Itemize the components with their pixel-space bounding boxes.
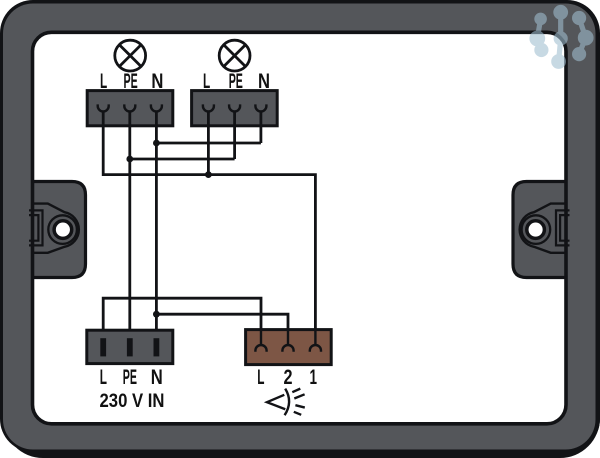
lamp connector 2 pin PE clamp <box>229 104 240 111</box>
svg-text:N: N <box>151 69 163 93</box>
svg-text:L: L <box>100 365 107 389</box>
svg-text:230 V IN: 230 V IN <box>100 390 165 412</box>
wire input L to switch L <box>103 298 261 330</box>
wire PE bus vertical <box>128 111 131 330</box>
lamp connector 1 block <box>87 91 173 126</box>
junction N-bus to switch terminal 2 <box>153 311 160 318</box>
svg-text:2: 2 <box>284 365 293 389</box>
switch lamp icon <box>267 389 305 416</box>
lamp connector 2 block <box>192 91 278 126</box>
svg-text:PE: PE <box>229 69 243 93</box>
wire lamp2 L drop <box>207 111 210 175</box>
input pin N slot <box>154 338 160 356</box>
input pin L slot <box>100 338 106 356</box>
svg-text:PE: PE <box>124 69 138 93</box>
lamp connector 1 pin L clamp <box>98 104 109 111</box>
labels lamp2 L PE N <box>203 69 270 93</box>
input terminal slots <box>100 338 159 356</box>
switch connector terminals <box>255 330 321 352</box>
junction PE-bus to lamp2 <box>126 156 133 163</box>
switch connector block (brown) <box>246 330 332 365</box>
svg-text:L: L <box>257 365 264 389</box>
wire lamp1 L to switched line to terminal 1 <box>103 111 315 330</box>
labels switch L 2 1 <box>257 365 317 389</box>
labels input L PE N <box>100 365 163 389</box>
switch connector pin L contact <box>255 330 266 352</box>
svg-text:N: N <box>151 365 163 389</box>
right screw lug <box>520 204 570 253</box>
lamp connector 1 pin PE clamp <box>124 104 135 111</box>
left mounting tab <box>31 182 86 278</box>
left screw lug <box>29 204 79 253</box>
input pin PE slot <box>127 338 133 356</box>
wire lamp2 PE branch <box>130 111 235 159</box>
wire N to switch terminal 2 <box>156 314 288 329</box>
inner white area <box>33 32 567 424</box>
svg-text:L: L <box>100 69 107 93</box>
svg-text:N: N <box>258 69 270 93</box>
junction N-bus to lamp2 <box>153 140 160 147</box>
lamp connector 1 terminals <box>98 104 162 111</box>
lamp symbol 2 <box>219 40 250 71</box>
watermark logo <box>530 5 593 68</box>
lamp connector 2 pin L clamp <box>203 104 214 111</box>
right mounting tab <box>513 182 568 278</box>
svg-text:L: L <box>203 69 210 93</box>
svg-text:PE: PE <box>123 365 137 389</box>
lamp connector 2 pin N clamp <box>255 104 266 111</box>
svg-text:1: 1 <box>310 365 318 389</box>
wire N bus vertical <box>155 111 158 330</box>
wire lamp2 N branch <box>156 111 261 143</box>
inner wall line <box>33 32 567 424</box>
labels lamp1 L PE N <box>100 69 163 93</box>
lamp symbol 1 <box>115 40 146 71</box>
wires <box>103 111 315 330</box>
230V input connector block <box>87 330 173 363</box>
junction switched line at lamp2 L <box>205 171 212 178</box>
lamp connector 1 pin N clamp <box>151 104 162 111</box>
switch connector pin 1 contact <box>310 330 321 352</box>
lamp connector 2 terminals <box>203 104 267 111</box>
switch connector pin 2 contact <box>282 330 293 352</box>
